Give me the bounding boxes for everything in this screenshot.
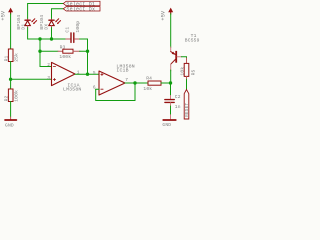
svg-text:C2: C2 xyxy=(175,94,181,100)
svg-text:100p: 100p xyxy=(75,21,81,33)
wire R3 branch down xyxy=(39,39,41,67)
wire R2 to GND xyxy=(10,102,12,118)
net flag RESET xyxy=(184,90,190,120)
svg-text:GND: GND xyxy=(5,123,14,129)
wire T1 base to R5 xyxy=(181,57,186,59)
svg-text:R4: R4 xyxy=(146,76,152,82)
wire signal bus xyxy=(40,38,66,40)
svg-text:R1: R1 xyxy=(3,55,9,61)
wire +5V to R1 xyxy=(10,14,12,49)
svg-text:R2: R2 xyxy=(3,95,9,101)
node C1/R3 junction xyxy=(86,50,89,53)
svg-text:100k: 100k xyxy=(59,54,71,60)
wire +5V to T1 emitter xyxy=(170,14,172,48)
wire D1 top to Select D1 flag xyxy=(28,4,64,19)
wire R5 to RESET flag xyxy=(186,80,188,90)
node collector/R4/C2 junction xyxy=(169,81,172,84)
resistor R3 xyxy=(58,44,80,60)
wire IC1B feedback loop xyxy=(96,83,135,101)
svg-text:R5: R5 xyxy=(190,69,196,75)
wire R3 right to vertical xyxy=(80,50,88,52)
svg-text:D1: D1 xyxy=(20,24,26,30)
svg-text:Select Dx: Select Dx xyxy=(66,7,95,13)
op-amp IC1A xyxy=(47,62,81,93)
ground GND right xyxy=(162,120,175,128)
svg-text:10k: 10k xyxy=(179,67,185,76)
wire R4 right to rail xyxy=(161,82,171,84)
wire T1 collector down xyxy=(170,70,172,83)
svg-text:1n: 1n xyxy=(175,104,181,110)
svg-text:5: 5 xyxy=(93,70,96,76)
svg-text:LM358N: LM358N xyxy=(63,87,81,93)
transistor T1 xyxy=(171,33,200,71)
svg-text:2: 2 xyxy=(47,62,50,68)
capacitor C1 xyxy=(64,21,81,43)
wire junction to IC1A pin3 xyxy=(11,78,52,80)
ground GND left xyxy=(5,120,16,129)
wire rail to C2 xyxy=(170,83,172,96)
svg-text:BC559: BC559 xyxy=(185,38,200,44)
wire DX bottom to bus xyxy=(51,28,53,39)
photodiode D1 xyxy=(16,15,37,30)
resistor R1 xyxy=(3,49,19,62)
svg-text:100k: 100k xyxy=(13,90,19,102)
wire IC1B pin6 stub xyxy=(96,88,99,90)
wire IC1A out to IC1B pin5 xyxy=(75,73,99,75)
net flag Select Dx xyxy=(63,7,100,13)
node bus/DX junction xyxy=(50,37,53,40)
wire IC1B out to R4 xyxy=(125,82,148,84)
svg-text:3: 3 xyxy=(47,75,50,81)
wire into IC1A pin2 xyxy=(40,66,52,68)
node junction R1/R2/pin3 xyxy=(9,78,12,81)
node R3 left junction xyxy=(38,50,41,53)
svg-text:+5V: +5V xyxy=(161,10,167,21)
svg-text:7: 7 xyxy=(125,77,128,83)
resistor R2 xyxy=(3,89,19,102)
svg-text:DX: DX xyxy=(43,24,49,30)
svg-text:+5V: +5V xyxy=(1,10,7,21)
wire C1 right to vertical xyxy=(80,39,88,74)
svg-text:10k: 10k xyxy=(143,86,152,92)
svg-text:IC1B: IC1B xyxy=(116,68,128,74)
wire C2 to GND xyxy=(170,106,172,115)
photodiode DX xyxy=(39,15,61,30)
svg-text:R3: R3 xyxy=(60,44,66,50)
node bus/D-R3 junction xyxy=(38,37,41,40)
net flag Select D1 xyxy=(63,1,100,7)
svg-text:RESET: RESET xyxy=(185,103,190,117)
node feedback/output junction xyxy=(86,73,89,76)
svg-text:C1: C1 xyxy=(64,27,70,33)
capacitor C2 xyxy=(165,94,181,110)
svg-text:GND: GND xyxy=(162,122,171,128)
wire DX top to Select Dx flag xyxy=(52,9,64,19)
svg-text:25k: 25k xyxy=(13,53,19,62)
node IC1B out junction xyxy=(133,81,136,84)
wire D1 bottom to bus xyxy=(28,28,40,39)
supply +5V left xyxy=(1,8,14,21)
supply +5V right xyxy=(161,8,174,21)
wire R3 left xyxy=(40,50,58,52)
resistor R4 xyxy=(143,76,161,92)
wire R1 to junction xyxy=(10,62,12,90)
op-amp IC1B xyxy=(93,63,135,95)
resistor R5 xyxy=(179,58,196,80)
